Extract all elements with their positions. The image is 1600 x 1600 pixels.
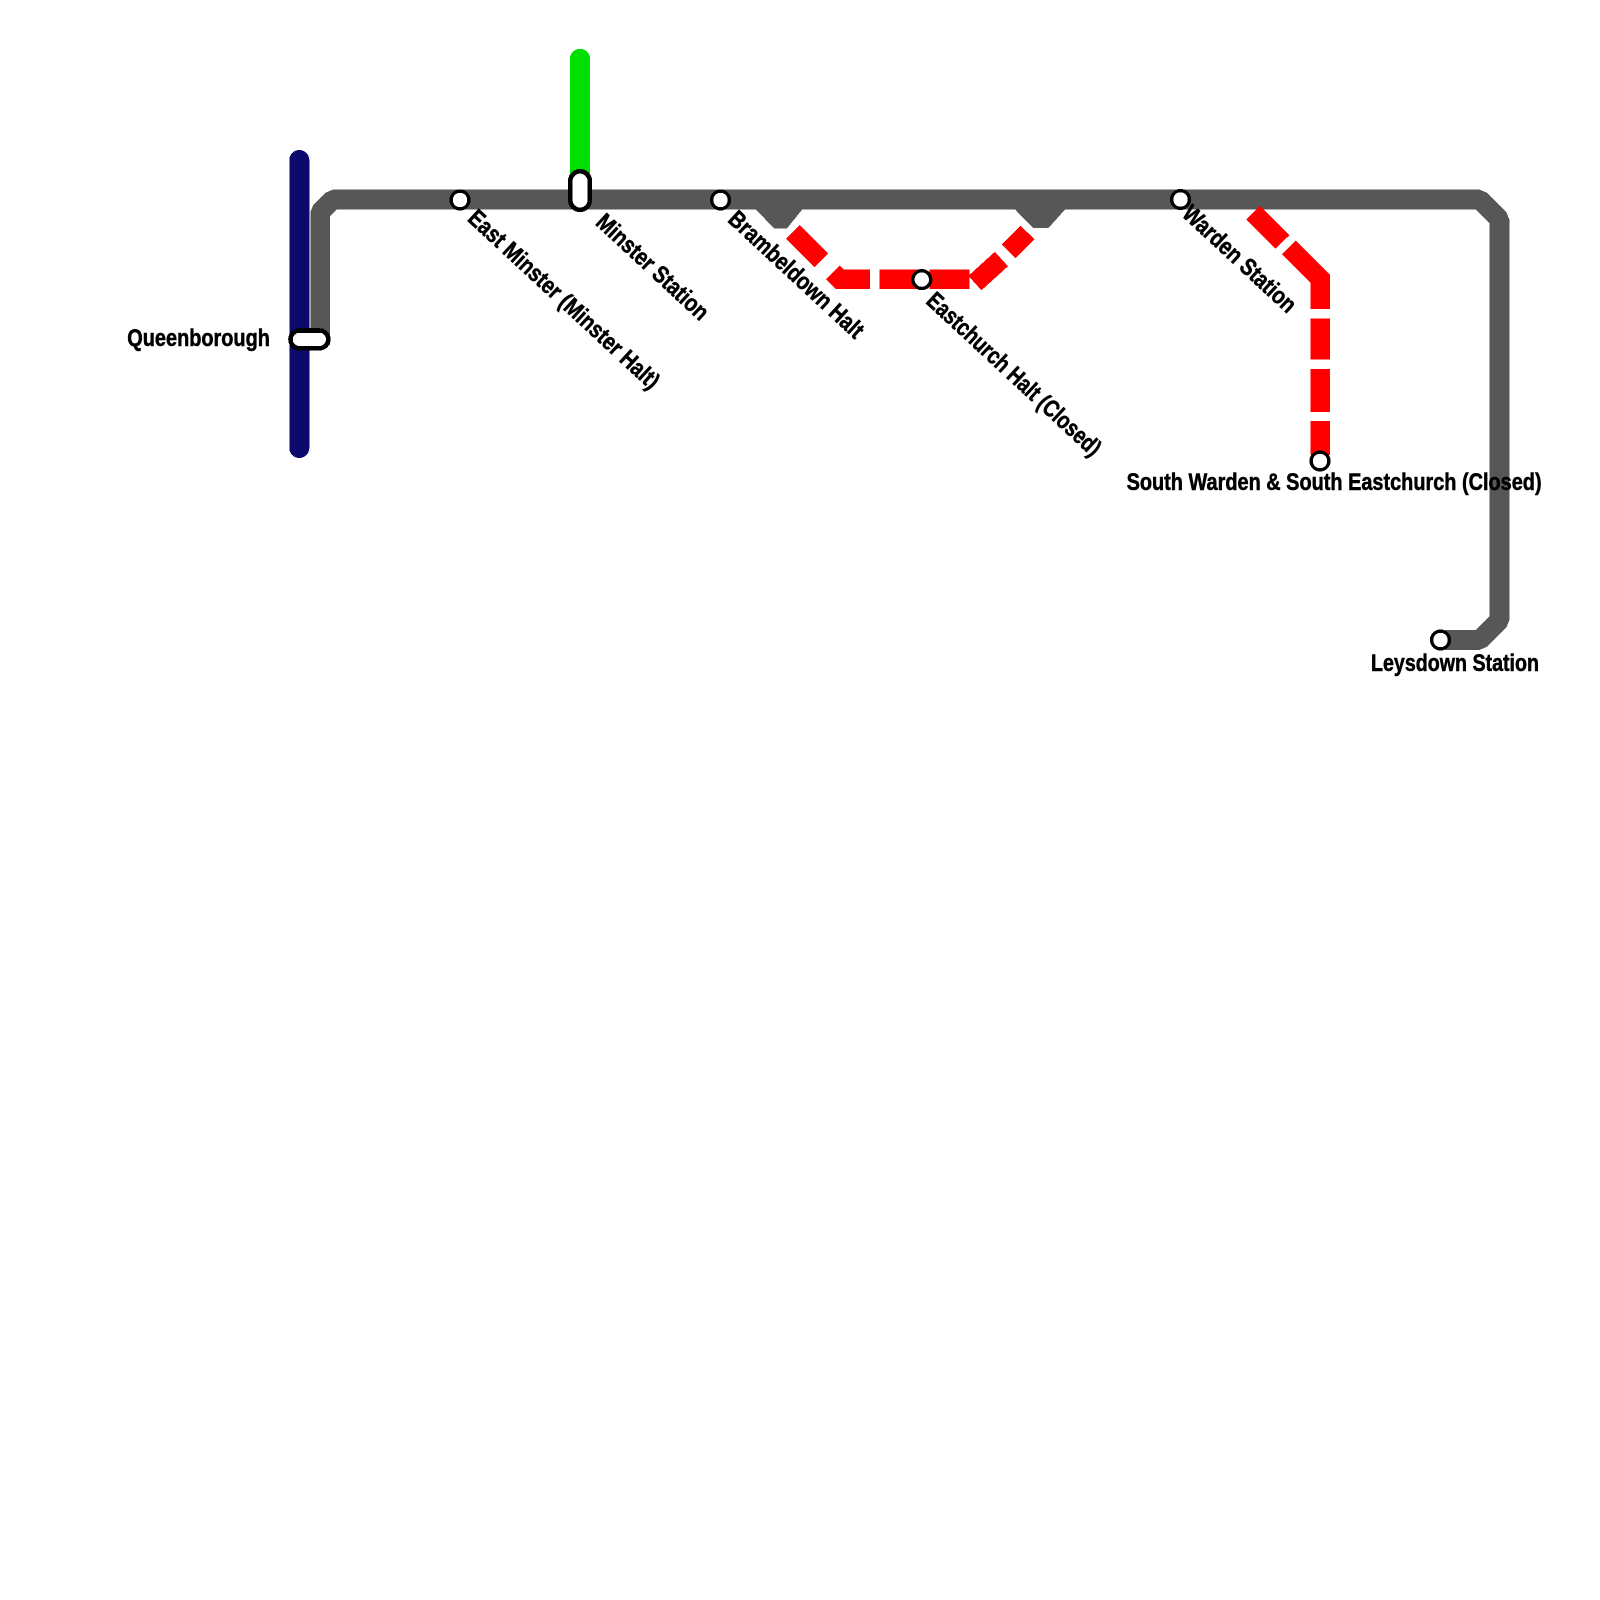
wire dash C (880, 269, 920, 289)
Queenborough interchange pill (291, 331, 329, 349)
wire dash B (corner) (833, 272, 870, 279)
wire dash F (1009, 233, 1028, 252)
wire dash K (1310, 421, 1330, 455)
wire dash E (975, 259, 1002, 283)
wire dash I (1310, 319, 1330, 360)
junction stub 1 (Brambledown branch departure) (746, 199, 810, 228)
wire dash H (corner) (1289, 248, 1320, 309)
wire dash A (793, 232, 821, 260)
red dashed branch 2: South Warden branch (1253, 213, 1320, 455)
svg-text:South Warden & South Eastchurc: South Warden & South Eastchurch (Closed) (1127, 469, 1542, 496)
Minster Station pill (570, 171, 590, 210)
Eastchurch station circle (913, 271, 931, 289)
Warden station circle (1172, 191, 1190, 209)
Leysdown station circle (1432, 631, 1450, 649)
wire dash G (1253, 213, 1282, 242)
svg-text:Queenborough: Queenborough (127, 325, 270, 352)
wire dash D (930, 269, 970, 289)
East Minster station circle (451, 191, 469, 209)
svg-text:Leysdown Station: Leysdown Station (1371, 650, 1539, 677)
green line (to Minster) (570, 59, 590, 190)
wire dash J (1310, 369, 1330, 412)
South Warden station circle (1311, 452, 1329, 470)
red dashed branch 1: Eastchurch loop (793, 232, 1027, 283)
grey main line (320, 200, 1499, 640)
navy line (Queenborough branch) (289, 160, 309, 448)
Brambledown station circle (712, 191, 730, 209)
junction stub 2 (Eastchurch branch rejoin) (1005, 199, 1074, 228)
